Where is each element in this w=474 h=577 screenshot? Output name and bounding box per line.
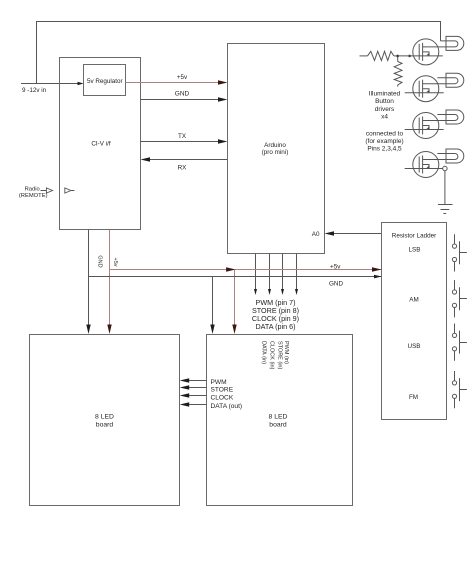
mosfet Q2 bbox=[405, 76, 455, 102]
svg-text:(pro mini): (pro mini) bbox=[262, 149, 289, 156]
resistor R gate (horizontal) bbox=[360, 51, 398, 60]
svg-text:PWM (in): PWM (in) bbox=[283, 341, 289, 364]
wire: +5v drop from CI-V to LED board 1 bbox=[107, 230, 111, 335]
Arduino (pro mini) box bbox=[228, 44, 325, 254]
svg-text:drivers: drivers bbox=[375, 106, 395, 113]
node: gate junction dots bbox=[396, 55, 411, 58]
pushbutton switch S4 bbox=[452, 371, 467, 408]
svg-text:board: board bbox=[269, 422, 287, 429]
svg-text:Button: Button bbox=[375, 98, 394, 105]
wire: GND to Arduino bbox=[141, 97, 228, 101]
label Radio (REMOTE) bbox=[19, 187, 48, 199]
wire: +5v from regulator to Arduino bbox=[126, 80, 228, 84]
svg-text:GND: GND bbox=[329, 281, 343, 288]
mosfet Q4 bbox=[405, 152, 455, 178]
svg-text:(REMOTE): (REMOTE) bbox=[19, 193, 48, 199]
svg-text:PWM: PWM bbox=[211, 379, 227, 386]
mosfet Q1 bbox=[398, 39, 455, 65]
svg-text:FM: FM bbox=[409, 394, 418, 401]
svg-text:Resistor Ladder: Resistor Ladder bbox=[392, 233, 436, 240]
svg-text:9 -12v in: 9 -12v in bbox=[22, 87, 47, 94]
svg-text:board: board bbox=[96, 422, 114, 429]
wire: Q4 source to ground bbox=[444, 171, 446, 205]
wire: GND bus to resistor ladder bbox=[89, 275, 382, 279]
wire: PWM pin 7 bbox=[254, 254, 257, 296]
wire: A0 from resistor ladder bbox=[325, 231, 382, 235]
wire: STORE pin 8 bbox=[268, 254, 271, 296]
svg-text:Pins 2,3,4,5: Pins 2,3,4,5 bbox=[367, 145, 402, 152]
label Arduino (pro mini) bbox=[262, 142, 289, 156]
wire: CLOCK pin 9 bbox=[281, 254, 284, 296]
svg-text:+5v: +5v bbox=[177, 74, 188, 81]
svg-text:LSB: LSB bbox=[409, 246, 421, 253]
labels board2 left signals bbox=[211, 379, 243, 410]
wire: CLOCK between boards bbox=[180, 393, 207, 397]
lamp L1 bbox=[441, 36, 464, 50]
svg-text:DATA (in): DATA (in) bbox=[261, 341, 267, 364]
svg-text:STORE: STORE bbox=[211, 387, 234, 394]
wire: RX to CI-V bbox=[141, 157, 228, 161]
svg-text:STORE (in): STORE (in) bbox=[277, 341, 283, 369]
svg-text:Arduino: Arduino bbox=[264, 142, 286, 149]
svg-text:8 LED: 8 LED bbox=[95, 414, 114, 421]
8 LED board 2 box bbox=[207, 335, 353, 506]
svg-text:CI-V i/f: CI-V i/f bbox=[91, 141, 110, 148]
wire: GND drop from CI-V to LED board 1 bbox=[86, 230, 90, 335]
pushbutton switch S2 bbox=[452, 280, 467, 317]
wire: 9-12v input line bbox=[21, 82, 84, 85]
label 8 LED board 2 bbox=[269, 414, 288, 429]
svg-text:connected to: connected to bbox=[366, 130, 404, 137]
svg-text:GND: GND bbox=[175, 91, 190, 98]
resistor R pulldown (vertical) bbox=[394, 56, 402, 87]
svg-text:Radio: Radio bbox=[25, 187, 40, 193]
lamp L3 bbox=[437, 110, 463, 124]
CI-V i/f box bbox=[60, 58, 141, 230]
wire: +5v branch into LED board 2 bbox=[232, 270, 236, 335]
svg-text:A0: A0 bbox=[312, 231, 320, 238]
Resistor Ladder box bbox=[382, 223, 447, 420]
label Illuminated Button drivers x4 bbox=[369, 91, 401, 121]
wire: 12v riser and top rail to lamp 1 bbox=[37, 22, 441, 84]
pushbutton switch S3 bbox=[452, 324, 467, 361]
svg-text:TX: TX bbox=[178, 133, 187, 140]
terminal: Q4 source bbox=[443, 166, 447, 170]
svg-text:+5v: +5v bbox=[330, 264, 341, 271]
svg-text:5v Regulator: 5v Regulator bbox=[87, 78, 123, 85]
svg-text:CLOCK: CLOCK bbox=[211, 395, 234, 402]
ground bbox=[438, 205, 453, 214]
5v Regulator box bbox=[84, 65, 126, 96]
label connected to Pins 2,3,4,5 bbox=[365, 130, 403, 152]
svg-text:GND: GND bbox=[96, 255, 102, 267]
svg-text:DATA (pin 6): DATA (pin 6) bbox=[255, 322, 295, 331]
svg-text:RX: RX bbox=[178, 165, 188, 172]
label 8 LED board 1 bbox=[95, 414, 114, 429]
svg-text:Illuminated: Illuminated bbox=[369, 91, 401, 98]
svg-text:AM: AM bbox=[409, 297, 418, 304]
svg-text:8 LED: 8 LED bbox=[269, 414, 288, 421]
wire: DATA pin 6 bbox=[295, 254, 298, 296]
pushbutton switch S1 bbox=[452, 234, 467, 271]
svg-text:DATA (out): DATA (out) bbox=[211, 403, 243, 410]
8 LED board 1 box bbox=[30, 335, 180, 506]
lamp L2 bbox=[437, 73, 463, 87]
svg-text:x4: x4 bbox=[381, 113, 388, 120]
lamp L4 bbox=[437, 149, 463, 163]
wire: TX to Arduino bbox=[141, 139, 228, 143]
labels arduino pin signals bbox=[252, 298, 299, 331]
wire: PWM between boards bbox=[180, 378, 207, 382]
mosfet Q3 bbox=[405, 113, 455, 139]
wire: DATA between boards bbox=[180, 402, 207, 406]
wire: GND branch into LED board 2 bbox=[210, 277, 214, 335]
svg-text:CLOCK (in): CLOCK (in) bbox=[269, 341, 275, 370]
svg-text:USB: USB bbox=[408, 343, 421, 350]
wire: STORE between boards bbox=[180, 385, 207, 389]
svg-text:+5v: +5v bbox=[112, 257, 118, 266]
svg-text:(for example): (for example) bbox=[365, 138, 403, 145]
wire: +5v bus to resistor ladder bbox=[110, 267, 382, 271]
connector: Radio (REMOTE) bbox=[41, 188, 75, 193]
labels board2 top rotated bbox=[261, 341, 290, 370]
